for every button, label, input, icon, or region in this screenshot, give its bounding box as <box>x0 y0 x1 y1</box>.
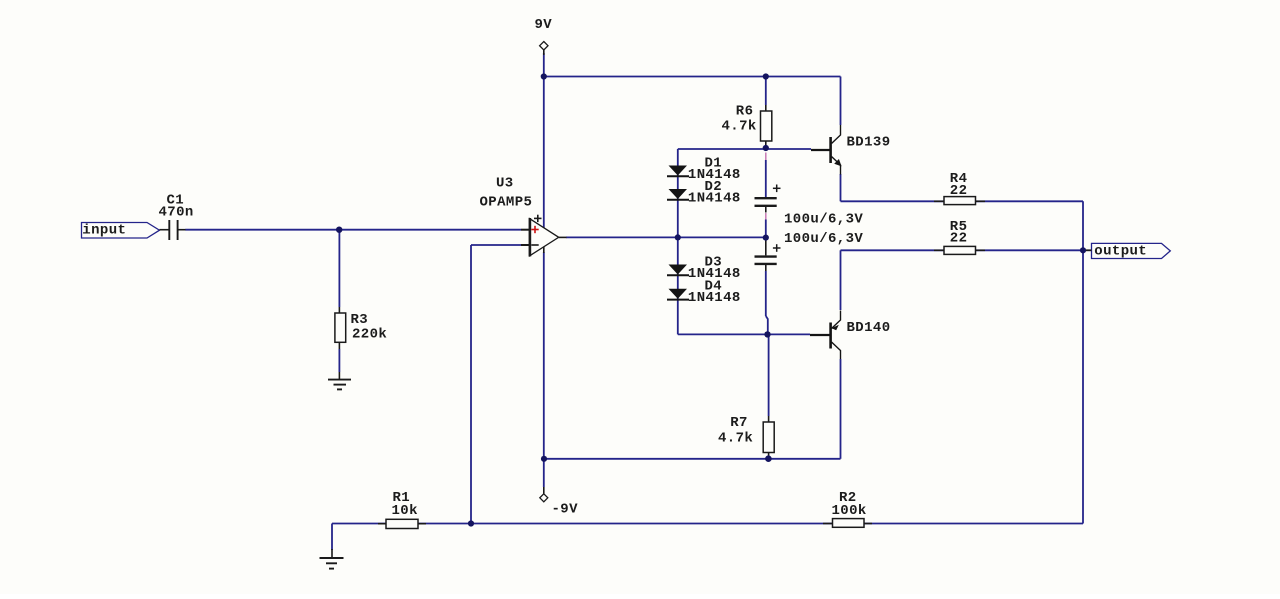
svg-text:10k: 10k <box>392 503 418 519</box>
svg-text:OPAMP5: OPAMP5 <box>480 195 533 211</box>
svg-text:22: 22 <box>950 230 968 246</box>
svg-text:1N4148: 1N4148 <box>688 190 741 206</box>
svg-text:4.7k: 4.7k <box>722 119 757 135</box>
svg-text:R3: R3 <box>351 312 369 328</box>
svg-text:U3: U3 <box>496 176 514 192</box>
svg-text:input: input <box>82 223 126 239</box>
svg-text:100k: 100k <box>832 503 867 519</box>
svg-text:9V: 9V <box>535 17 553 33</box>
svg-text:100u/6,3V: 100u/6,3V <box>784 231 863 247</box>
svg-text:4.7k: 4.7k <box>718 430 753 446</box>
svg-text:1N4148: 1N4148 <box>688 290 741 306</box>
svg-text:BD139: BD139 <box>847 135 891 151</box>
svg-text:100u/6,3V: 100u/6,3V <box>784 211 863 227</box>
svg-text:BD140: BD140 <box>847 320 891 336</box>
svg-text:-9V: -9V <box>552 502 579 518</box>
svg-text:220k: 220k <box>352 327 387 343</box>
svg-text:output: output <box>1094 243 1147 259</box>
svg-text:R7: R7 <box>730 415 748 431</box>
svg-text:22: 22 <box>950 183 968 199</box>
svg-text:470n: 470n <box>159 205 194 221</box>
svg-text:R6: R6 <box>736 104 754 120</box>
